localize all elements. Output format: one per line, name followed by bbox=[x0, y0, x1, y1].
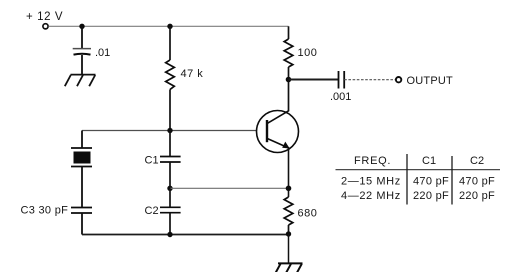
wire collector node to C4 bbox=[289, 79, 339, 81]
svg-text:C1: C1 bbox=[422, 155, 436, 167]
capacitor C2 bbox=[160, 207, 181, 212]
wire R3 to bottom node bbox=[288, 225, 290, 234]
wire mid node to emitter bbox=[170, 187, 289, 189]
svg-text:C2: C2 bbox=[145, 205, 159, 217]
wire to ground bbox=[288, 234, 290, 263]
svg-text:47 k: 47 k bbox=[181, 68, 204, 80]
svg-text:OUTPUT: OUTPUT bbox=[407, 75, 454, 87]
table FREQ/C1/C2 bbox=[336, 154, 501, 205]
ground (emitter) bbox=[275, 263, 302, 273]
wire rail corner into R 100 bbox=[288, 26, 290, 39]
svg-text:2—15 MHz: 2—15 MHz bbox=[341, 176, 401, 188]
wire base node to C1 bbox=[169, 131, 171, 157]
svg-text:100: 100 bbox=[298, 47, 318, 59]
svg-text:.001: .001 bbox=[330, 91, 351, 103]
wire base line bbox=[82, 130, 257, 132]
terminal +12V bbox=[43, 24, 48, 29]
capacitor C3 bbox=[71, 208, 92, 214]
node junction bottom right bbox=[286, 231, 291, 236]
capacitor .01 bypass bbox=[73, 49, 91, 55]
wire C1 to mid node bbox=[169, 162, 171, 188]
svg-text:FREQ.: FREQ. bbox=[354, 155, 391, 167]
node junction top rail / R 47k bbox=[167, 24, 172, 29]
wire top rail bbox=[49, 25, 289, 27]
wire R2 to collector node bbox=[288, 67, 290, 111]
svg-text:.01: .01 bbox=[95, 47, 110, 59]
table header rule bbox=[336, 169, 501, 171]
wire C3 to bottom rail bbox=[81, 213, 83, 235]
resistor R3 680 bbox=[284, 197, 293, 225]
node junction base bbox=[167, 128, 172, 133]
capacitor C1 bbox=[160, 157, 181, 163]
wire stub to bypass cap bbox=[81, 26, 83, 48]
wire bottom rail bbox=[82, 234, 289, 236]
svg-text:470 pF: 470 pF bbox=[413, 176, 449, 188]
svg-text:220 pF: 220 pF bbox=[413, 190, 449, 202]
wire C2 to bottom rail bbox=[169, 213, 171, 235]
node junction collector/output bbox=[286, 77, 292, 83]
svg-text:220 pF: 220 pF bbox=[459, 190, 495, 202]
node junction top rail / C bypass bbox=[79, 24, 84, 29]
wire crystal to C3 bbox=[81, 167, 83, 208]
transistor Q1 bbox=[257, 111, 299, 153]
svg-text:680: 680 bbox=[298, 208, 318, 220]
table column rule 1 bbox=[406, 154, 408, 205]
terminal OUTPUT bbox=[396, 77, 401, 82]
node junction emitter bbox=[286, 186, 292, 192]
wire left branch top bbox=[81, 131, 83, 149]
svg-text:+ 12 V: + 12 V bbox=[26, 11, 63, 23]
ground (bypass cap) bbox=[65, 75, 96, 87]
wire rail to R1 bbox=[169, 26, 171, 60]
svg-text:470 pF: 470 pF bbox=[459, 176, 495, 188]
node junction bottom rail bbox=[167, 232, 172, 237]
resistor R2 100 bbox=[284, 39, 293, 67]
wire R1 to base node bbox=[169, 90, 171, 131]
wire cap to ground bbox=[81, 55, 83, 75]
resistor R1 47k bbox=[166, 60, 175, 90]
svg-text:4—22 MHz: 4—22 MHz bbox=[341, 190, 401, 202]
node junction C1/C2 bbox=[167, 186, 172, 191]
capacitor C4 .001 bbox=[339, 71, 345, 89]
wire C4 to output terminal bbox=[344, 79, 395, 81]
wire emitter down bbox=[288, 149, 290, 198]
wire mid node to C2 bbox=[169, 188, 171, 207]
svg-text:C1: C1 bbox=[145, 155, 159, 167]
svg-text:C2: C2 bbox=[470, 155, 484, 167]
crystal Y1 bbox=[71, 148, 92, 167]
svg-text:C3 30 pF: C3 30 pF bbox=[21, 205, 69, 217]
table column rule 2 bbox=[451, 156, 453, 205]
